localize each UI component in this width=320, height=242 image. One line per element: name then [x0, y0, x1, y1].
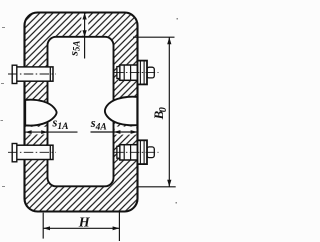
- svg-text:H: H: [78, 215, 91, 230]
